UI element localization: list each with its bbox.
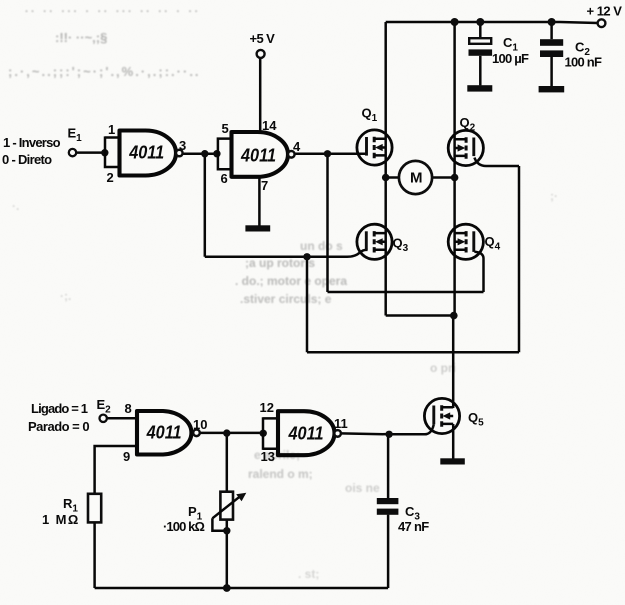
- junction dot pin3 branch: [201, 150, 208, 157]
- wire bottom rail: [95, 587, 389, 590]
- terminal +12V: [598, 19, 606, 27]
- wire Q3 source to Q5 drain horizontal: [386, 314, 455, 317]
- svg-text:1 MΩ: 1 MΩ: [42, 512, 80, 527]
- wire gate2 output pin4 to Q1 gate: [295, 153, 367, 156]
- svg-text:8: 8: [125, 401, 132, 416]
- wire +5V to pin14: [259, 58, 262, 132]
- svg-text:0 - Direto: 0 - Direto: [2, 152, 52, 167]
- junction dot gate2 bracket: [213, 150, 220, 157]
- ground C2: [539, 86, 565, 92]
- wire pin4 across to Q4 gate branch: [328, 291, 484, 294]
- ground Q5 source: [440, 458, 465, 464]
- svg-text:1 - Inverso: 1 - Inverso: [3, 135, 61, 150]
- junction dot Q3-Q4 sources: [450, 312, 458, 320]
- wire P1 wiper return and bottom lead: [212, 518, 226, 588]
- junction dot gate4 bracket: [260, 430, 267, 437]
- svg-text:14: 14: [262, 118, 277, 133]
- junction dot motor left: [382, 174, 390, 182]
- wire motor left lead: [386, 176, 400, 179]
- ground C1: [467, 85, 492, 91]
- wire E2 to gate3 pin8: [107, 417, 137, 420]
- svg-text:3: 3: [179, 138, 186, 153]
- svg-text:.stiver circuls; e: .stiver circuls; e: [240, 292, 332, 306]
- transistor Q1 (MOSFET): [357, 130, 392, 165]
- terminal +5V: [257, 50, 265, 58]
- svg-text:Ligado = 1: Ligado = 1: [31, 401, 88, 416]
- svg-text:4011: 4011: [146, 423, 182, 443]
- wire E1 to gate1 input bracket: [76, 151, 105, 154]
- transistor Q4 (MOSFET, mirrored): [448, 224, 483, 259]
- motor M: [399, 161, 432, 194]
- wire C1 bottom lead: [479, 56, 482, 86]
- wire gate1 output pin3 to gate2 bracket: [183, 152, 218, 155]
- svg-text:·100 kΩ: ·100 kΩ: [163, 519, 204, 534]
- svg-text:M: M: [410, 170, 423, 187]
- svg-text:47 nF: 47 nF: [398, 519, 429, 534]
- svg-text:4011: 4011: [240, 146, 276, 166]
- svg-text:4: 4: [293, 139, 301, 154]
- terminal E1: [69, 149, 76, 156]
- svg-text:.. .. ... . .. ... .. ..: .. .. ... . .. ... .. .. . ..: [25, 3, 201, 15]
- junction dot node x307: [303, 253, 310, 260]
- capacitor C3: [377, 498, 399, 515]
- NAND gate U1d (4011) body: [278, 411, 341, 455]
- wire +12V rail: [386, 22, 598, 23]
- wire Q5 source to ground: [452, 424, 455, 459]
- junction dot rail-Q2: [451, 18, 459, 26]
- wire P1 top lead: [226, 433, 229, 492]
- wire C3 top lead: [387, 434, 390, 498]
- junction dot motor right: [451, 174, 459, 182]
- junction dot P1 wiper: [223, 527, 230, 534]
- svg-text:Parado = 0: Parado = 0: [28, 419, 89, 434]
- wire C1 top lead: [479, 22, 482, 38]
- wire left H-bridge vertical (rail to Q1 drain, Q1 source, Q3, down): [384, 22, 387, 316]
- wire Q4 gate lead: [474, 252, 483, 259]
- wire pin3 node across to Q3 gate: [205, 248, 366, 257]
- svg-text:6: 6: [221, 171, 228, 186]
- wire pin3 node down: [204, 154, 207, 257]
- junction dot E1 bracket: [101, 149, 108, 156]
- svg-text:ois ne: ois ne: [345, 481, 380, 495]
- svg-text:5: 5: [222, 121, 229, 136]
- svg-text:+5 V: +5 V: [250, 31, 276, 46]
- svg-text:·;.: ·;.: [60, 289, 71, 303]
- junction dot pin4 branch: [324, 150, 331, 157]
- ground pin7: [245, 225, 270, 231]
- junction dot rail-C2: [548, 18, 556, 26]
- svg-text:9: 9: [123, 449, 130, 464]
- svg-text:1: 1: [108, 122, 115, 137]
- svg-text:4011: 4011: [128, 143, 164, 163]
- wire Q4 gate branch up: [482, 259, 485, 293]
- NAND gate U1a (4011) body: [120, 131, 183, 176]
- svg-text:;.·,~..;;:';~·;'.,%.·,.;:.··..: ;.·,~..;;:';~·;'.,%.·,.;:.··..: [8, 64, 201, 79]
- transistor Q3 (MOSFET): [357, 224, 392, 259]
- junction dot pin11-C3: [385, 431, 392, 438]
- svg-text:un do s: un do s: [300, 239, 343, 253]
- svg-text:ralend o m;: ralend o m;: [248, 467, 313, 481]
- svg-text:2: 2: [107, 170, 114, 185]
- svg-text:+ 12 V: + 12 V: [587, 4, 623, 19]
- wire right H-bridge vertical (rail through Q2, Q4): [453, 22, 456, 316]
- wire R1 feedback to gate3 pin9: [95, 446, 137, 494]
- wire C2 top lead: [550, 22, 553, 39]
- potentiometer P1: [212, 492, 246, 520]
- gate4 input bracket: [263, 417, 278, 450]
- svg-text:13: 13: [261, 449, 275, 464]
- capacitor C1 (electrolytic): [469, 38, 493, 56]
- svg-text:7: 7: [261, 178, 268, 193]
- svg-text::!!· ··~,;§: :!!· ··~,;§: [55, 30, 107, 45]
- NAND gate U1c (4011) body: [137, 411, 200, 455]
- svg-text:;·: ;·: [550, 189, 558, 203]
- svg-text:. do.; motor e opera: . do.; motor e opera: [235, 274, 347, 288]
- wire C3 bottom lead: [387, 515, 390, 588]
- wire pin7 to ground: [258, 177, 261, 227]
- junction dot rail-C1: [476, 18, 484, 26]
- wire long horizontal to right vertical: [307, 351, 519, 354]
- wire Q2 gate lead: [474, 158, 519, 166]
- terminal E2: [100, 415, 107, 422]
- svg-text:10: 10: [193, 417, 207, 432]
- resistor R1: [88, 494, 101, 523]
- svg-text:12: 12: [260, 400, 274, 415]
- capacitor C2: [540, 39, 563, 57]
- svg-text:. st;: . st;: [298, 567, 319, 581]
- wire gate4 output pin11 to Q5 gate: [341, 424, 434, 434]
- wire Q4 source down to Q5 drain: [452, 316, 455, 409]
- gate1 input bracket: [105, 136, 120, 168]
- transistor Q2 (MOSFET, mirrored): [448, 130, 483, 165]
- transistor Q5 (MOSFET): [424, 398, 459, 433]
- wire C2 bottom lead: [550, 57, 553, 86]
- wire right side vertical up to Q2 gate: [518, 166, 521, 352]
- junction dot pin10-P1: [223, 429, 230, 436]
- gate2 input bracket: [218, 137, 232, 170]
- NAND gate U1b (4011) body: [232, 132, 295, 177]
- svg-text:4011: 4011: [288, 424, 324, 444]
- svg-text:11: 11: [334, 416, 348, 431]
- junction dot bottom rail P1: [223, 584, 231, 592]
- wire node at x307 down: [306, 257, 309, 353]
- svg-text:·.: ·.: [12, 199, 19, 213]
- wire R1 bottom lead: [93, 522, 96, 588]
- wire gate3 output pin10 to gate4 bracket: [200, 432, 263, 435]
- wire pin4 node down: [326, 154, 329, 292]
- svg-text:100 µF: 100 µF: [492, 51, 529, 66]
- wire motor right lead: [432, 176, 455, 179]
- svg-text:100 nF: 100 nF: [565, 55, 602, 70]
